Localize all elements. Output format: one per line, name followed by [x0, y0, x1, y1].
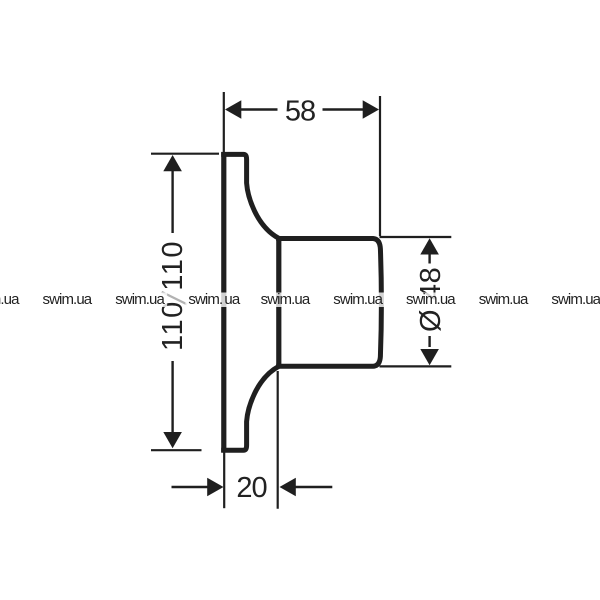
- dimension 110/110: bottom arrowhead: [163, 432, 182, 448]
- svg-text:swim.ua: swim.ua: [115, 291, 165, 308]
- dimension Ø48: upper shaft stub: [428, 253, 430, 264]
- svg-text:swim.ua: swim.ua: [479, 291, 529, 308]
- plate top edge and upper trumpet curve: [221, 154, 279, 238]
- dimension Ø48: lower shaft stub: [428, 336, 430, 347]
- cylinder left wall: [276, 237, 281, 369]
- svg-text:swim.ua: swim.ua: [0, 291, 20, 308]
- dimension 20: right extension line: [277, 371, 279, 509]
- dimension 20: left shaft: [172, 486, 209, 488]
- svg-text:swim.ua: swim.ua: [43, 291, 93, 308]
- dimension Ø48: top arrowhead: [420, 238, 439, 254]
- svg-text:swim.ua: swim.ua: [261, 291, 311, 308]
- dimension Ø48: top extension line: [380, 236, 452, 238]
- svg-text:swim.ua: swim.ua: [333, 291, 383, 308]
- dimension 110/110: lower shaft: [171, 361, 173, 434]
- svg-text:swim.ua: swim.ua: [406, 291, 456, 308]
- svg-text:swim.ua: swim.ua: [551, 291, 600, 308]
- watermark texts swim.ua: [0, 291, 600, 308]
- svg-text:58: 58: [285, 96, 315, 128]
- label 110/110 gray slash: [162, 292, 187, 305]
- plate left edge: [221, 152, 226, 452]
- dimension 58: left shaft: [240, 108, 278, 110]
- dimension 110/110: top extension line: [151, 153, 219, 155]
- dimension 20: left extension line: [223, 452, 225, 508]
- dimension 58: left extension line: [223, 92, 225, 152]
- dimension 20: right arrowhead (points left): [280, 478, 296, 497]
- dimension Ø48: bottom extension line: [380, 365, 452, 367]
- dimension Ø48: bottom arrowhead: [420, 349, 439, 365]
- dimension 58: right shaft: [323, 108, 365, 110]
- svg-text:20: 20: [236, 472, 266, 504]
- dimension 20: left arrowhead (points right): [207, 478, 223, 497]
- dimension 58: right extension line: [379, 96, 381, 236]
- drawing group: [151, 92, 451, 509]
- dimension 110/110: bottom extension line: [151, 449, 202, 451]
- cylinder top, right (slightly bowed) and bottom edges: [276, 239, 381, 367]
- dimension 58: left arrowhead: [225, 100, 241, 119]
- dimension 110/110: top arrowhead: [163, 155, 182, 171]
- dimension 58: right arrowhead: [363, 100, 379, 119]
- svg-text:swim.ua: swim.ua: [188, 291, 240, 308]
- dimension 110/110: upper shaft: [171, 171, 173, 234]
- dimension 20: right shaft: [296, 486, 333, 488]
- plate bottom edge and lower trumpet curve: [221, 366, 279, 450]
- watermark translucent boxes: [0, 293, 600, 308]
